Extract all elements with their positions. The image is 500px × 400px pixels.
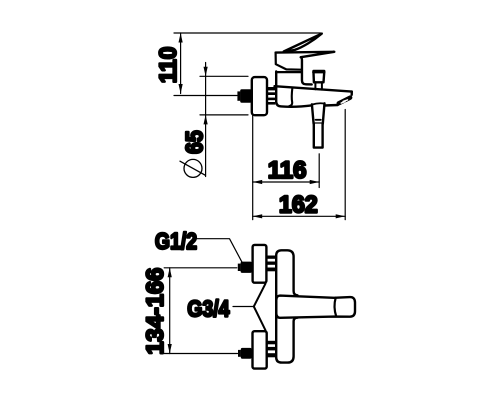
svg-text:116: 116 [268,157,307,184]
leader G1/2 [197,239,242,262]
arrow left 162 [253,214,263,218]
dimension 110 vertical line [180,33,182,94]
cartridge housing arc [289,88,292,107]
arrow left 116 [253,180,263,184]
bowtie union diagonals [254,284,266,331]
svg-text:134-166: 134-166 [142,268,169,355]
aerator slit 1 [343,100,347,102]
wire: extension below rosette [252,115,254,219]
diverter knob top band [314,71,325,74]
faucet body side: top joint line [276,71,301,73]
dimension 65 vertical line [205,63,207,177]
diameter symbol circle [184,159,202,177]
faucet body side: left edge + bottom [276,72,312,107]
faucet spout top edge [275,86,352,91]
arrow up 134-166 [168,268,172,278]
wire: extension line top nut [164,267,237,269]
svg-text:110: 110 [155,47,182,84]
plan lever cap divider [335,298,337,317]
plan hex nut tab bottom [238,350,241,357]
plan hex nut tab top [238,264,241,271]
shower pipe [314,124,323,148]
aerator block [339,98,351,104]
svg-text:162: 162 [279,192,318,218]
wire: extension line bottom nut [164,353,237,355]
wire: extension line rosette bottom [200,114,248,116]
diverter knob stem [315,82,322,89]
arrow right 116 [310,180,320,184]
plan rosette top [253,245,267,283]
arrow up 65 [204,115,208,125]
wire: extension line top (110) [174,32,321,34]
rosette side view [252,77,267,115]
handle base + skirt [276,53,301,70]
plan hex nut top [241,262,252,273]
dimension 116 line [253,181,320,183]
handle horizontal blade [276,52,335,57]
shower outlet trapezoid [312,103,325,123]
hex nut side view [240,89,251,103]
svg-text:G1/2: G1/2 [155,228,197,254]
wall union ridges (side) [267,87,275,105]
hex nut tab side view [237,91,240,100]
dimension 162 line [253,215,346,217]
svg-text:G3/4: G3/4 [187,296,229,322]
arrow down 134-166 [168,344,172,354]
wire: extension line rosette top [200,75,248,77]
arrow down 110 [179,84,183,94]
plan rosette bottom [253,331,267,368]
handle angled blade [284,34,322,52]
wire: extension line center axis [174,95,237,97]
leader G3/4 [233,306,254,308]
diverter knob outline [314,71,325,82]
shower outlet inner line [316,119,321,121]
dimension 134-166 vertical line [169,268,171,354]
shower outlet top bump [312,103,325,104]
plan ridges bottom [267,341,276,358]
wire: extension below spout tip [344,110,346,220]
arrow up 110 [179,33,183,43]
faucet spout tip face [351,92,353,95]
arrow right 162 [336,214,346,218]
aerator slit 2 [341,102,345,104]
wire: extension below shower pipe [318,154,320,188]
plan body outline [276,250,297,362]
diameter symbol slash [180,161,205,175]
plan hex nut bottom [241,348,252,359]
arrow down 65 [204,67,208,77]
plan lever [276,296,355,318]
plan ridges top [267,256,276,272]
handle skirt right edge [301,57,312,84]
svg-text:65: 65 [181,130,208,153]
faucet body side: spout underside right part [324,104,338,107]
